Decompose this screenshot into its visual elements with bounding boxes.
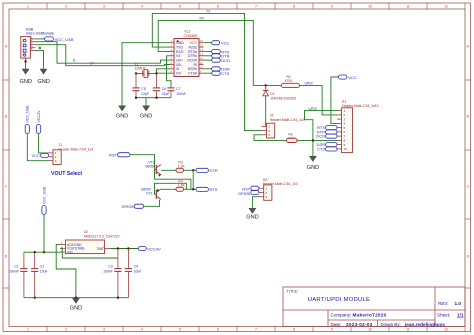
net flag DTR (CH340) — [204, 54, 230, 59]
svg-text:GND: GND — [116, 114, 128, 120]
net flag GPIO6 (H2 pin2) — [238, 191, 259, 197]
svg-text:C4: C4 — [134, 264, 138, 268]
wire ground rail — [24, 297, 128, 299]
svg-text:5: 5 — [179, 4, 181, 8]
svg-text:GPIO6: GPIO6 — [238, 191, 251, 196]
wire USB GND pin to ground — [36, 51, 44, 69]
wire VOUT(TAB) loop to output — [60, 248, 118, 258]
right pin stubs — [199, 43, 204, 73]
junction C3/ground rail — [117, 297, 119, 299]
svg-text:DSR#: DSR# — [188, 67, 197, 71]
junction C4/output — [127, 247, 129, 249]
TITLE BLOCK — [283, 287, 465, 327]
svg-text:100nF: 100nF — [176, 92, 186, 96]
svg-text:UPDI: UPDI — [309, 107, 317, 111]
connector J2 (Header-Male-2.54_1x3) — [262, 114, 305, 138]
wire RST to VT1 base — [130, 155, 191, 190]
left pin names — [176, 41, 184, 76]
transistor VT1 S8050 — [145, 160, 161, 176]
svg-text:VT2: VT2 — [146, 192, 152, 196]
wire VT1 collector to R3 — [161, 169, 176, 171]
svg-text:CTS#: CTS# — [188, 72, 197, 76]
svg-text:RST: RST — [109, 153, 118, 158]
regulator U2 AMS1117-3.3 — [60, 230, 120, 255]
junction ground rail/GND — [75, 297, 77, 299]
net flag DCD (CH340) — [204, 58, 231, 63]
svg-text:12: 12 — [444, 4, 448, 8]
svg-text:1N4148-SOD323: 1N4148-SOD323 — [270, 96, 296, 100]
net flag DSR (P1 pin9) — [317, 142, 337, 147]
capacitor C4 10uF — [125, 249, 142, 298]
net flag VCC (CH340) — [204, 41, 230, 46]
svg-text:VCC: VCC — [190, 41, 198, 45]
svg-text:6: 6 — [217, 328, 219, 332]
connector H2 (Header-Male-2.54_1x3) — [259, 178, 298, 200]
svg-text:2023-02-03: 2023-02-03 — [346, 322, 373, 327]
svg-text:4700: 4700 — [285, 79, 293, 83]
svg-text:C1: C1 — [14, 264, 18, 268]
svg-text:GND: GND — [37, 79, 49, 85]
svg-text:S8050: S8050 — [145, 165, 155, 169]
svg-text:1.2K: 1.2K — [178, 164, 186, 168]
wire V3 to C7 — [167, 56, 172, 88]
wire R4 to RTS flag — [184, 188, 196, 190]
svg-text:1/1: 1/1 — [457, 313, 464, 318]
transistor VT2 S8050 (mirrored) — [141, 188, 161, 200]
wire R2 to junction/P1 pin8 — [297, 139, 337, 141]
capacitor C2 10uF — [31, 251, 48, 299]
net flag CTS (P1 pin10) — [317, 146, 337, 151]
junction RXD/D1 — [265, 84, 267, 86]
svg-text:VCC_USB: VCC_USB — [26, 105, 30, 123]
svg-text:100nF: 100nF — [103, 270, 113, 274]
left pin numbers — [171, 39, 173, 73]
resistor R1 4700 — [282, 75, 300, 88]
svg-text:Sheet:: Sheet: — [437, 313, 450, 318]
svg-text:GPIO6: GPIO6 — [121, 204, 134, 209]
svg-text:DTR: DTR — [210, 168, 218, 173]
svg-text:XO: XO — [176, 72, 181, 76]
wire CH340 GND pin to ground — [122, 43, 170, 106]
net flag RTS (VT2) — [196, 187, 218, 192]
svg-text:11: 11 — [406, 328, 410, 332]
svg-text:TITLE:: TITLE: — [287, 289, 299, 294]
svg-text:U2: U2 — [84, 230, 88, 234]
svg-text:RTS#: RTS# — [188, 50, 197, 54]
wire TAB output rail — [110, 248, 138, 250]
svg-text:8: 8 — [293, 328, 295, 332]
connector USB (micro USB female) — [21, 28, 54, 59]
svg-text:12: 12 — [444, 328, 448, 332]
svg-text:VCC_USB: VCC_USB — [55, 37, 74, 42]
svg-text:VOUT Select: VOUT Select — [51, 171, 82, 177]
ground (USB shield) — [19, 69, 31, 85]
svg-text:10uF: 10uF — [40, 270, 48, 274]
wire H2 pin3 to ground — [252, 197, 259, 209]
wire USB shield to ground — [25, 58, 27, 69]
net flag VCC3V (regulator output) — [138, 247, 161, 252]
wire D- (USB pin2 to CH340 UD+) — [36, 42, 171, 64]
left pin stubs — [170, 43, 175, 73]
wire XO to crystal — [158, 72, 170, 74]
svg-text:C5: C5 — [141, 87, 145, 91]
capacitor C7 100nF — [167, 87, 186, 98]
svg-text:GND: GND — [140, 114, 152, 120]
resistor R2 4700 — [287, 132, 298, 142]
resistor R3 1.2K — [176, 160, 186, 172]
svg-text:TX: TX — [206, 9, 211, 13]
svg-text:GND: GND — [176, 41, 184, 45]
svg-text:5: 5 — [179, 328, 181, 332]
right pin numbers — [200, 39, 203, 73]
wire ADJ/GND loop to ground rail — [56, 245, 76, 298]
svg-text:GND: GND — [246, 215, 258, 221]
net flag DTR (VT1) — [196, 168, 218, 173]
svg-text:DCD#: DCD# — [187, 59, 197, 63]
wire VT1 base stub — [155, 169, 157, 171]
svg-text:CTS: CTS — [317, 146, 325, 151]
svg-text:GND: GND — [70, 306, 82, 312]
wire RXD loop to D1/R1 — [158, 20, 281, 85]
svg-text:22pF: 22pF — [162, 92, 170, 96]
svg-text:jean.redelinghuys: jean.redelinghuys — [404, 322, 445, 327]
net flag VCC (J1 pin2) — [32, 153, 49, 158]
svg-text:GND: GND — [19, 79, 31, 85]
wire TXD loop to J2 pin2 — [152, 13, 261, 130]
wire VT2 collector to R4 — [161, 188, 176, 190]
diode D1 1N4148-SOD323 — [263, 85, 297, 126]
net flag VCC_USB (vertical, J1) — [25, 105, 48, 161]
svg-text:Company:: Company: — [331, 313, 352, 318]
svg-text:RXD: RXD — [176, 50, 184, 54]
svg-text:XI: XI — [176, 67, 179, 71]
svg-text:7: 7 — [255, 4, 257, 8]
svg-text:D-: D- — [73, 59, 77, 63]
svg-text:D+: D+ — [90, 61, 94, 65]
svg-text:100nF: 100nF — [9, 270, 19, 274]
svg-text:6: 6 — [217, 4, 219, 8]
net flag DCD (P1 pin7) — [316, 134, 337, 139]
svg-text:RX: RX — [200, 16, 205, 20]
svg-text:VCC: VCC — [32, 153, 41, 158]
svg-text:MakerIoT2020: MakerIoT2020 — [353, 313, 387, 318]
svg-text:9: 9 — [331, 4, 333, 8]
ic IC1 CH340G body — [174, 39, 199, 77]
svg-text:C2: C2 — [40, 264, 44, 268]
ground (crystal) — [140, 106, 152, 120]
svg-text:micro USBfemale: micro USBfemale — [26, 32, 54, 36]
wire crystal ground rail — [136, 97, 171, 99]
svg-text:8: 8 — [293, 4, 295, 8]
net flag RST (VT1) — [109, 153, 130, 158]
ground (CH340 GND) — [116, 106, 128, 120]
svg-text:DCD: DCD — [316, 134, 325, 139]
wire GPIO6 to VT2 emitter — [144, 200, 160, 206]
net flag VCC_USB (vertical, regulator input) — [42, 186, 46, 253]
junction C3/output — [117, 247, 119, 249]
wire VIN input rail — [24, 251, 60, 253]
capacitor C5 22pF — [132, 73, 149, 97]
junction R2/P1 pin8/GND — [312, 139, 314, 141]
svg-text:1: 1 — [27, 328, 29, 332]
connector P1 (Header-Male-2.54_1x10) — [337, 100, 379, 153]
svg-text:D1: D1 — [270, 92, 274, 96]
svg-text:Header-Male-2.54_1x3: Header-Male-2.54_1x3 — [58, 147, 93, 151]
junction VCC_USB/VIN rail — [43, 251, 45, 253]
wire P1 pin1 net — [305, 111, 338, 157]
net flag RTS (CH340) — [204, 49, 230, 54]
svg-text:VCC3V: VCC3V — [147, 247, 161, 252]
svg-text:7: 7 — [255, 328, 257, 332]
ground (regulator) — [70, 298, 82, 311]
net flag GPIO6 (VT2 emitter) — [121, 204, 143, 209]
svg-text:UPDI: UPDI — [305, 81, 313, 85]
connector J1 (Header-Male-2.54_1x3) — [49, 143, 94, 164]
svg-text:VIN: VIN — [67, 250, 73, 254]
junction C6/rail — [155, 97, 157, 99]
svg-text:RTS: RTS — [210, 187, 218, 192]
svg-text:UART/UPDI MODULE: UART/UPDI MODULE — [308, 297, 370, 303]
svg-text:Header-Male-2.54_1x3: Header-Male-2.54_1x3 — [270, 118, 305, 122]
junction R3/DTR — [192, 169, 194, 171]
svg-text:C7: C7 — [176, 87, 180, 91]
net flag DSR (CH340) — [204, 67, 230, 72]
resistor R4 1.2K — [176, 179, 186, 191]
wire J2 pin3 to R2 — [254, 135, 287, 141]
svg-text:9: 9 — [331, 328, 333, 332]
net flag RST (H2 pin1) — [242, 186, 259, 192]
ground (P1) — [307, 156, 319, 171]
svg-text:2: 2 — [65, 4, 67, 8]
svg-text:VCC: VCC — [348, 75, 357, 80]
svg-text:GND: GND — [307, 165, 319, 171]
svg-text:VCC3V: VCC3V — [37, 110, 41, 123]
wire crystal rail to ground — [145, 98, 147, 106]
capacitor C6 22pF — [153, 73, 170, 97]
crystal X1 12MHz — [135, 62, 158, 77]
svg-text:VCC: VCC — [221, 41, 230, 46]
svg-text:10: 10 — [368, 4, 372, 8]
wire D+ (USB pin3 to CH340 UD-) — [36, 45, 171, 66]
wire DTR junction down to RTS junction — [192, 170, 194, 189]
svg-text:2: 2 — [65, 328, 67, 332]
svg-text:Drawn By:: Drawn By: — [381, 322, 401, 327]
junction C5/rail — [135, 97, 137, 99]
svg-text:VCC_USB: VCC_USB — [42, 186, 46, 204]
net flag DTR (P1 pin6) — [317, 129, 337, 134]
net flag CTS (CH340) — [204, 71, 230, 76]
svg-text:CH340G: CH340G — [184, 34, 198, 38]
svg-text:C6: C6 — [162, 87, 166, 91]
ground (USB GND pin) — [37, 69, 49, 85]
svg-text:IC1: IC1 — [185, 29, 191, 33]
svg-text:3: 3 — [103, 328, 105, 332]
svg-text:4: 4 — [141, 328, 143, 332]
net flag VCC_USB — [36, 37, 74, 42]
svg-text:10: 10 — [344, 147, 348, 151]
no-connect mark on ID pin — [39, 47, 41, 49]
svg-text:10: 10 — [368, 328, 372, 332]
svg-text:3: 3 — [103, 4, 105, 8]
svg-text:1.0: 1.0 — [455, 301, 462, 306]
junction R4/RTS — [192, 188, 194, 190]
junction USB shield — [24, 60, 26, 62]
svg-text:22pF: 22pF — [141, 92, 149, 96]
wire R3 to DTR flag — [184, 169, 196, 171]
wire XI to crystal — [157, 69, 171, 74]
ground (H2) — [246, 208, 258, 220]
capacitor C3 100nF — [103, 249, 121, 298]
right pin names — [187, 41, 197, 76]
svg-text:4: 4 — [141, 4, 143, 8]
net flag VCC (P1) — [331, 75, 357, 123]
svg-text:10uF: 10uF — [134, 270, 142, 274]
svg-text:AMS1117-3.3_C347222: AMS1117-3.3_C347222 — [84, 234, 120, 238]
wire VT2 base cross-couple loop — [155, 183, 187, 194]
net flag VCC3V (vertical, J1) — [37, 110, 49, 153]
svg-text:C3: C3 — [108, 264, 112, 268]
svg-text:1: 1 — [27, 4, 29, 8]
net flag RTS (P1 pin5) — [317, 125, 337, 130]
svg-text:REV:: REV: — [438, 301, 449, 306]
svg-text:UD+: UD+ — [176, 59, 183, 63]
svg-text:CTS: CTS — [221, 71, 229, 76]
wire UPDI from R1 to P1 pin2 — [300, 85, 338, 115]
svg-text:DCD: DCD — [221, 58, 230, 63]
pin 1 marker dot — [177, 40, 179, 42]
svg-text:Date:: Date: — [331, 322, 342, 327]
capacitor C1 100nF — [9, 252, 27, 298]
svg-text:11: 11 — [406, 4, 410, 8]
